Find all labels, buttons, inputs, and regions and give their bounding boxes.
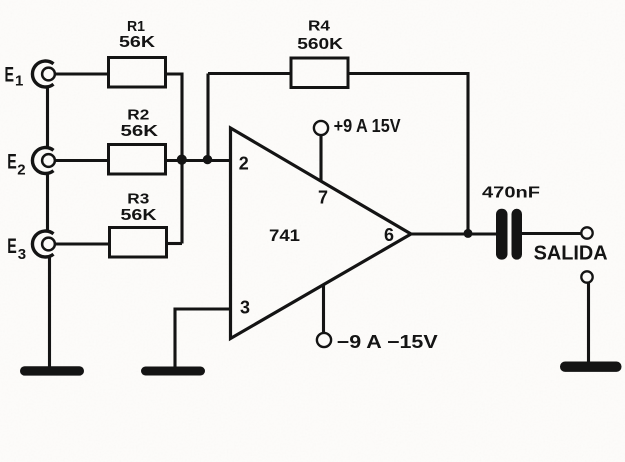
wire E2 to R2: [55, 159, 109, 162]
wire R2 output to op-amp pin 2: [166, 159, 231, 162]
junction feedback node: [203, 155, 212, 164]
wire output terminal to ground: [587, 283, 590, 363]
input jack E2: [32, 147, 54, 173]
svg-text:R3: R3: [127, 192, 149, 208]
capacitor C1 470nF plate 2: [512, 209, 523, 260]
svg-text:R4: R4: [308, 18, 330, 34]
negative supply terminal: [317, 333, 331, 347]
ground (pin 3): [141, 367, 205, 376]
wire pin 3 to ground: [175, 309, 230, 367]
capacitor C1 470nF plate 1: [496, 209, 508, 260]
wire E1 to R1: [55, 72, 109, 75]
wire feedback branch vertical: [206, 74, 209, 161]
svg-text:56K: 56K: [121, 123, 160, 140]
ground (input shields): [20, 366, 84, 375]
resistor R2: [109, 145, 166, 175]
svg-text:56K: 56K: [119, 34, 156, 51]
wire feedback branch top to R4: [208, 72, 291, 75]
svg-text:−9 A −15V: −9 A −15V: [337, 332, 438, 352]
positive supply terminal: [314, 121, 328, 135]
svg-text:560K: 560K: [297, 36, 344, 53]
input jack E1: [32, 61, 54, 87]
wire R4 to output node: [348, 74, 468, 235]
junction output node: [464, 229, 473, 238]
wire capacitor to output terminal: [522, 232, 582, 235]
resistor R4: [291, 58, 348, 88]
svg-text:7: 7: [318, 188, 328, 208]
wire summing bus vertical: [180, 73, 183, 244]
wire jack shield E3 to ground: [48, 256, 51, 367]
svg-text:R1: R1: [127, 19, 145, 35]
wire supply+ to pin 7: [319, 136, 322, 183]
output terminal lower: [581, 271, 592, 282]
wire jack shield E1 to E2: [46, 86, 49, 149]
svg-text:R2: R2: [127, 108, 149, 124]
wire R3 output to bus: [167, 242, 183, 245]
wire R1 output to bus: [166, 72, 183, 75]
resistor R3: [110, 228, 167, 258]
wire supply- to pin 4: [322, 285, 325, 333]
svg-text:SALIDA: SALIDA: [534, 243, 608, 265]
wire jack shield E2 to E3: [46, 173, 49, 233]
input jack E3: [32, 231, 54, 257]
output terminal upper: [581, 227, 592, 238]
svg-text:2: 2: [239, 153, 249, 173]
junction summing node: [177, 155, 187, 165]
wire E3 to R3: [55, 242, 110, 245]
resistor R1: [109, 58, 166, 88]
wire op-amp output: [411, 232, 496, 235]
svg-text:3: 3: [240, 298, 250, 318]
ground (output): [560, 362, 622, 372]
svg-text:741: 741: [269, 227, 300, 245]
svg-text:470nF: 470nF: [482, 184, 540, 201]
svg-text:+9 A 15V: +9 A 15V: [334, 116, 401, 136]
op-amp U1 triangle 741: [231, 128, 412, 339]
svg-text:56K: 56K: [121, 207, 158, 224]
svg-text:6: 6: [384, 225, 394, 245]
